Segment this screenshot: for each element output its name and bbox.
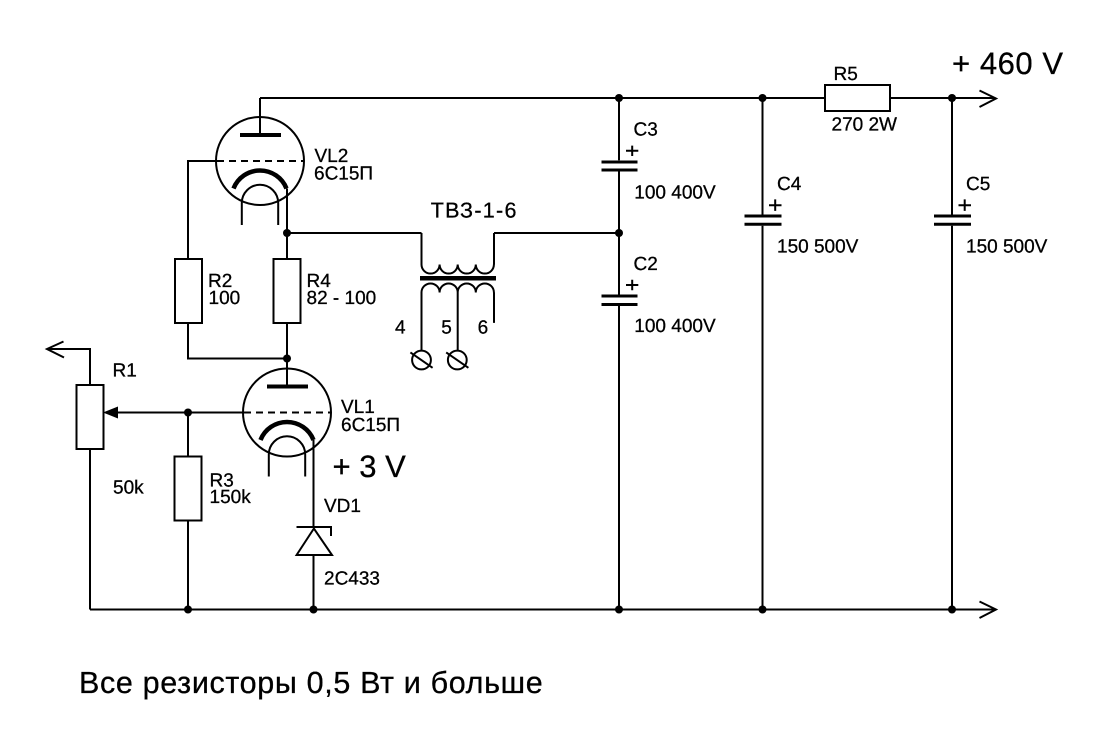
svg-text:C5: C5 bbox=[966, 174, 990, 195]
svg-text:C4: C4 bbox=[777, 174, 802, 195]
svg-text:C3: C3 bbox=[634, 120, 658, 141]
svg-text:150k: 150k bbox=[210, 487, 252, 508]
svg-text:VD1: VD1 bbox=[324, 496, 361, 517]
svg-text:+ 3 V: + 3 V bbox=[333, 449, 407, 484]
svg-text:Все резисторы 0,5 Вт и больше: Все резисторы 0,5 Вт и больше bbox=[79, 666, 543, 700]
svg-text:82 - 100: 82 - 100 bbox=[307, 288, 377, 309]
svg-text:C2: C2 bbox=[634, 254, 658, 275]
svg-text:100 400V: 100 400V bbox=[634, 183, 716, 204]
svg-text:6С15П: 6С15П bbox=[341, 415, 400, 436]
svg-text:100: 100 bbox=[209, 288, 241, 309]
svg-text:+ 460 V: + 460 V bbox=[952, 46, 1064, 81]
svg-text:150 500V: 150 500V bbox=[966, 237, 1048, 258]
svg-text:R1: R1 bbox=[113, 361, 137, 382]
svg-text:270 2W: 270 2W bbox=[832, 115, 898, 136]
svg-text:100 400V: 100 400V bbox=[634, 316, 716, 337]
svg-text:150 500V: 150 500V bbox=[777, 237, 859, 258]
svg-text:6: 6 bbox=[478, 318, 489, 339]
svg-text:4: 4 bbox=[395, 318, 406, 339]
svg-text:6С15П: 6С15П bbox=[314, 164, 373, 185]
svg-text:2С433: 2С433 bbox=[324, 569, 380, 590]
svg-text:50k: 50k bbox=[113, 478, 144, 499]
svg-text:ТВЗ-1-6: ТВЗ-1-6 bbox=[431, 199, 518, 223]
svg-text:5: 5 bbox=[441, 318, 452, 339]
svg-text:R5: R5 bbox=[834, 64, 858, 85]
